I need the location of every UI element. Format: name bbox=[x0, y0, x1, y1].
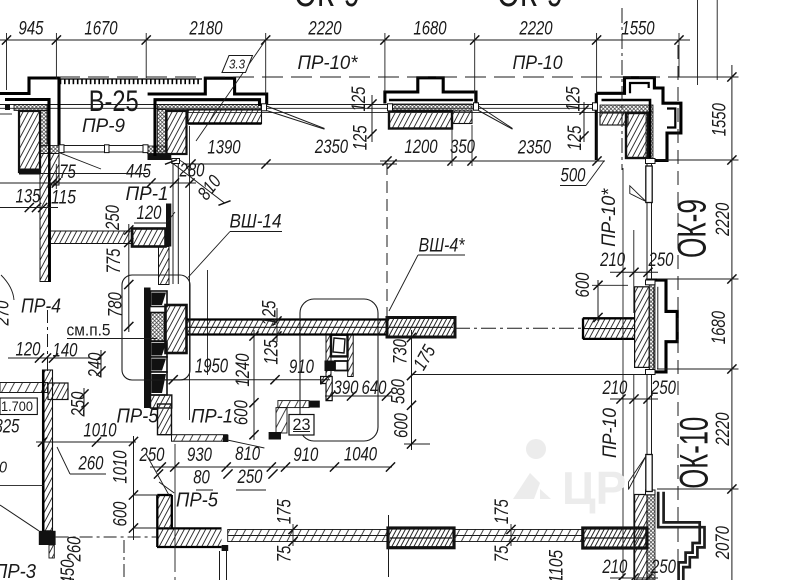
svg-text:ПР-1: ПР-1 bbox=[191, 407, 233, 428]
svg-text:ОК-10: ОК-10 bbox=[673, 417, 717, 489]
svg-text:125: 125 bbox=[349, 86, 370, 111]
svg-text:0: 0 bbox=[0, 460, 7, 477]
svg-text:600: 600 bbox=[573, 272, 594, 297]
svg-text:1550: 1550 bbox=[710, 103, 731, 137]
svg-text:250: 250 bbox=[650, 378, 676, 399]
svg-text:580: 580 bbox=[389, 379, 410, 404]
svg-text:600: 600 bbox=[231, 400, 252, 425]
svg-text:250: 250 bbox=[650, 557, 676, 578]
svg-text:175: 175 bbox=[492, 499, 513, 524]
svg-text:780: 780 bbox=[106, 292, 127, 317]
svg-text:115: 115 bbox=[51, 188, 76, 209]
svg-text:ПР-10: ПР-10 bbox=[600, 408, 621, 458]
svg-text:2180: 2180 bbox=[189, 19, 223, 40]
svg-text:600: 600 bbox=[392, 413, 413, 438]
svg-text:2350: 2350 bbox=[517, 138, 551, 159]
svg-text:1950: 1950 bbox=[195, 356, 228, 378]
svg-text:600: 600 bbox=[111, 501, 132, 526]
svg-text:ПР-5: ПР-5 bbox=[176, 490, 219, 512]
svg-text:930: 930 bbox=[187, 445, 212, 466]
svg-text:1680: 1680 bbox=[413, 19, 447, 40]
svg-text:260: 260 bbox=[65, 536, 86, 562]
svg-text:120: 120 bbox=[16, 340, 41, 361]
svg-text:ПР-1: ПР-1 bbox=[126, 184, 169, 205]
svg-text:210: 210 bbox=[602, 557, 628, 578]
svg-text:140: 140 bbox=[53, 341, 78, 362]
svg-text:500: 500 bbox=[561, 166, 586, 187]
svg-text:210: 210 bbox=[602, 378, 628, 399]
svg-text:325: 325 bbox=[0, 417, 20, 438]
svg-text:390: 390 bbox=[334, 378, 359, 399]
svg-text:2350: 2350 bbox=[314, 137, 348, 158]
svg-text:210: 210 bbox=[599, 250, 625, 271]
svg-text:3.3: 3.3 bbox=[229, 57, 246, 72]
svg-text:730: 730 bbox=[391, 339, 412, 364]
svg-text:135: 135 bbox=[16, 187, 41, 208]
svg-text:250: 250 bbox=[648, 250, 674, 271]
svg-text:250: 250 bbox=[103, 205, 124, 231]
svg-text:125: 125 bbox=[565, 125, 586, 150]
svg-text:270: 270 bbox=[0, 300, 14, 326]
svg-text:125: 125 bbox=[564, 86, 585, 111]
svg-text:1040: 1040 bbox=[344, 445, 378, 466]
svg-text:ПР-9: ПР-9 bbox=[82, 116, 125, 137]
svg-text:125: 125 bbox=[350, 125, 371, 150]
svg-text:ОК-9: ОК-9 bbox=[670, 199, 714, 258]
svg-text:75: 75 bbox=[492, 545, 513, 562]
svg-text:1670: 1670 bbox=[84, 19, 118, 40]
svg-text:120: 120 bbox=[137, 203, 162, 224]
svg-text:1010: 1010 bbox=[83, 421, 117, 442]
svg-text:775: 775 bbox=[104, 248, 125, 273]
svg-text:75: 75 bbox=[59, 162, 76, 183]
svg-text:ПР-3: ПР-3 bbox=[0, 561, 36, 580]
svg-text:ОК-9: ОК-9 bbox=[294, 0, 360, 15]
svg-text:350: 350 bbox=[450, 137, 475, 158]
svg-text:1550: 1550 bbox=[621, 19, 655, 40]
svg-text:80: 80 bbox=[193, 468, 210, 489]
svg-text:2070: 2070 bbox=[713, 526, 734, 560]
svg-text:см.п.5: см.п.5 bbox=[67, 321, 111, 340]
svg-text:250: 250 bbox=[139, 445, 165, 466]
svg-text:945: 945 bbox=[19, 19, 44, 40]
svg-text:1680: 1680 bbox=[709, 311, 730, 345]
svg-text:ЦР: ЦР bbox=[562, 462, 626, 514]
svg-text:ВШ-14: ВШ-14 bbox=[230, 212, 282, 233]
svg-text:ПР-10: ПР-10 bbox=[513, 53, 563, 74]
svg-text:125: 125 bbox=[260, 300, 281, 325]
svg-text:125: 125 bbox=[262, 339, 283, 364]
svg-text:ПР-4: ПР-4 bbox=[21, 296, 61, 318]
svg-text:910: 910 bbox=[293, 445, 318, 466]
svg-text:2220: 2220 bbox=[519, 19, 553, 40]
svg-text:250: 250 bbox=[69, 391, 90, 417]
svg-text:В-25: В-25 bbox=[89, 85, 139, 118]
svg-text:445: 445 bbox=[126, 162, 151, 183]
svg-text:1200: 1200 bbox=[404, 137, 438, 158]
svg-text:1010: 1010 bbox=[111, 450, 132, 484]
svg-text:260: 260 bbox=[78, 454, 104, 475]
svg-text:810: 810 bbox=[235, 444, 260, 465]
svg-text:ВШ-4*: ВШ-4* bbox=[419, 236, 466, 257]
svg-text:250: 250 bbox=[237, 467, 263, 488]
svg-text:ПР-5: ПР-5 bbox=[117, 406, 160, 428]
svg-text:2220: 2220 bbox=[713, 202, 734, 236]
svg-text:240: 240 bbox=[86, 352, 107, 378]
svg-text:ПР-10*: ПР-10* bbox=[298, 53, 359, 74]
svg-text:640: 640 bbox=[362, 378, 387, 399]
svg-text:910: 910 bbox=[289, 357, 314, 378]
svg-text:ОК-9: ОК-9 bbox=[497, 0, 563, 15]
svg-text:75: 75 bbox=[275, 545, 296, 562]
svg-text:1240: 1240 bbox=[233, 353, 254, 387]
svg-text:1105: 1105 bbox=[546, 550, 567, 580]
svg-text:ПР-10*: ПР-10* bbox=[599, 188, 620, 247]
svg-text:450: 450 bbox=[58, 559, 79, 580]
svg-text:1390: 1390 bbox=[207, 138, 241, 159]
svg-text:1.700: 1.700 bbox=[1, 398, 33, 414]
svg-text:175: 175 bbox=[275, 499, 296, 524]
svg-text:2220: 2220 bbox=[308, 19, 342, 40]
